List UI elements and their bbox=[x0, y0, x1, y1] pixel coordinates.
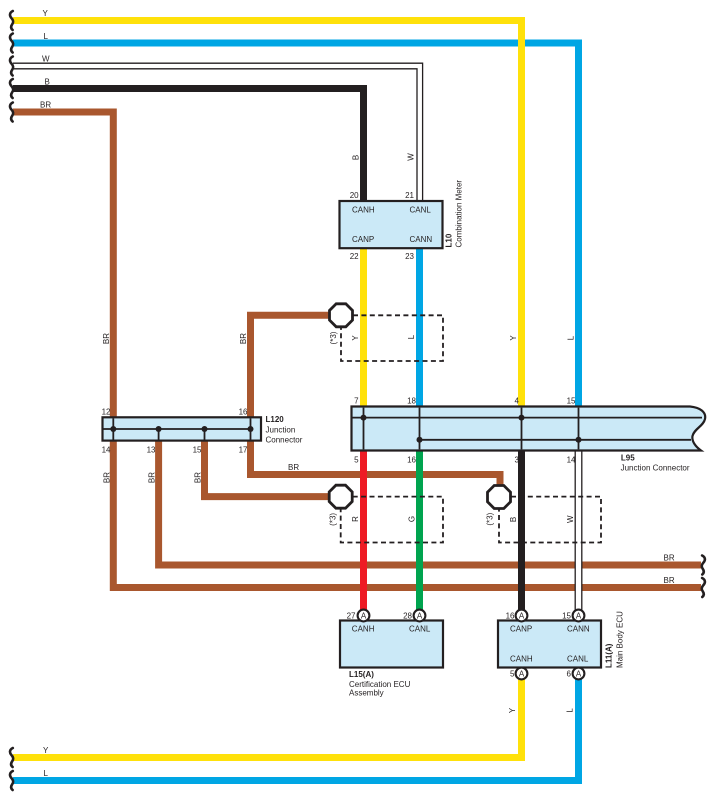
wire break (top L) bbox=[10, 34, 13, 53]
shield ground octagon S2 bbox=[329, 485, 352, 508]
wire W (L95 pin 14 to L11 pin 15) bbox=[575, 450, 582, 610]
wire break (bottom Y) bbox=[10, 748, 13, 767]
svg-text:Junction Connector: Junction Connector bbox=[621, 463, 690, 472]
wire L bottom (L11 pin 6 to left edge) bbox=[13, 680, 579, 781]
svg-text:Main Body ECU: Main Body ECU bbox=[616, 611, 625, 668]
wire Y top (left edge to L95 pin 4) bbox=[13, 21, 522, 408]
svg-text:BR: BR bbox=[148, 472, 157, 483]
L95 junction dots bbox=[361, 415, 367, 421]
svg-text:B: B bbox=[45, 77, 50, 86]
svg-text:Combination Meter: Combination Meter bbox=[455, 180, 464, 248]
connector L11(A) Main Body ECU box bbox=[498, 621, 601, 668]
L95 internal pin lines bbox=[364, 408, 579, 450]
svg-text:(*3): (*3) bbox=[329, 331, 338, 344]
wire BR2 (L120 pin 14 to right edge) bbox=[113, 441, 701, 588]
svg-text:14: 14 bbox=[102, 446, 111, 455]
svg-text:A: A bbox=[361, 611, 367, 620]
svg-text:L: L bbox=[566, 708, 575, 713]
svg-text:A: A bbox=[576, 611, 582, 620]
L120 internal pin lines bbox=[113, 418, 250, 439]
svg-text:L15(A): L15(A) bbox=[349, 670, 374, 679]
svg-text:16: 16 bbox=[407, 456, 416, 465]
svg-text:CANL: CANL bbox=[409, 625, 431, 634]
wire B (L95 pin 3 to L11 pin 16) bbox=[518, 450, 525, 610]
pin circle A (L11 pin 5) bbox=[516, 668, 528, 680]
svg-text:3: 3 bbox=[515, 456, 520, 465]
svg-text:L: L bbox=[44, 32, 49, 41]
wire break (right BR2) bbox=[702, 578, 705, 597]
svg-text:L11(A): L11(A) bbox=[605, 643, 614, 668]
svg-text:B: B bbox=[352, 155, 361, 160]
shield braid outline (R/G pair, dashed) bbox=[341, 497, 443, 543]
connector L120 Junction Connector box bbox=[103, 417, 262, 440]
svg-text:BR: BR bbox=[664, 554, 675, 563]
svg-text:14: 14 bbox=[567, 456, 576, 465]
svg-text:Y: Y bbox=[43, 746, 49, 755]
svg-text:BR: BR bbox=[239, 333, 248, 344]
svg-text:4: 4 bbox=[515, 397, 520, 406]
svg-text:CANP: CANP bbox=[352, 235, 374, 244]
wire break (right BR1) bbox=[702, 556, 705, 575]
svg-text:13: 13 bbox=[147, 446, 156, 455]
svg-text:L120: L120 bbox=[266, 415, 285, 424]
wire R (L95 pin 5 to L15 pin 27) bbox=[360, 450, 367, 610]
pin circle A (L11 pin 15) bbox=[573, 610, 585, 622]
wire G (L95 pin 16 to L15 pin 28) bbox=[416, 450, 423, 610]
svg-text:BR: BR bbox=[102, 333, 111, 344]
svg-text:R: R bbox=[351, 516, 360, 522]
svg-text:16: 16 bbox=[506, 612, 515, 621]
svg-text:Y: Y bbox=[43, 9, 49, 18]
svg-text:BR: BR bbox=[664, 576, 675, 585]
shield ground octagon S3 bbox=[488, 486, 511, 509]
svg-text:BR: BR bbox=[288, 463, 299, 472]
wire Y bottom (L11 pin 5 to left edge) bbox=[13, 680, 522, 758]
svg-text:15: 15 bbox=[193, 446, 202, 455]
svg-text:L: L bbox=[44, 769, 49, 778]
svg-text:CANL: CANL bbox=[410, 206, 432, 215]
shield ground octagon S1 bbox=[330, 304, 353, 327]
wire BR (L120 pin 15 to shield octagon S2) bbox=[205, 441, 333, 497]
wire break (bottom L) bbox=[10, 771, 13, 790]
svg-text:15: 15 bbox=[562, 612, 571, 621]
svg-text:18: 18 bbox=[407, 397, 416, 406]
svg-text:Y: Y bbox=[508, 707, 517, 713]
wire BR top (left edge to L120 pin 12) bbox=[13, 112, 113, 418]
svg-text:16: 16 bbox=[239, 408, 248, 417]
L95 internal bus line lower (CANL) bbox=[420, 439, 692, 441]
svg-text:17: 17 bbox=[239, 446, 248, 455]
svg-text:7: 7 bbox=[354, 397, 359, 406]
wire break (top W) bbox=[10, 57, 13, 76]
pin circle A (L11 pin 16) bbox=[516, 610, 528, 622]
svg-text:Y: Y bbox=[351, 335, 360, 341]
svg-text:CANP: CANP bbox=[510, 625, 532, 634]
wire L top (left edge to L95 pin 15) bbox=[13, 43, 579, 407]
L120 junction dots bbox=[110, 426, 116, 432]
svg-text:CANH: CANH bbox=[352, 206, 375, 215]
svg-text:BR: BR bbox=[40, 101, 51, 110]
svg-text:B: B bbox=[509, 517, 518, 522]
wire B top (left edge to L10 pin 20) bbox=[13, 89, 364, 203]
svg-text:(*3): (*3) bbox=[328, 513, 337, 526]
L120 internal bus line bbox=[104, 428, 251, 430]
svg-text:L95: L95 bbox=[621, 454, 635, 463]
svg-text:CANN: CANN bbox=[567, 625, 590, 634]
svg-text:5: 5 bbox=[354, 456, 359, 465]
svg-text:BR: BR bbox=[102, 472, 111, 483]
svg-text:15: 15 bbox=[567, 397, 576, 406]
connector L95 Junction Connector box (torn right edge) bbox=[352, 407, 706, 451]
wire Y (L10 pin 22 to L95 pin 7) bbox=[360, 248, 367, 407]
svg-text:28: 28 bbox=[403, 612, 412, 621]
svg-text:12: 12 bbox=[102, 408, 111, 417]
svg-text:L: L bbox=[567, 335, 576, 340]
svg-text:Y: Y bbox=[509, 335, 518, 341]
svg-text:A: A bbox=[519, 669, 525, 678]
svg-text:G: G bbox=[407, 516, 416, 522]
pin circle A (L11 pin 6) bbox=[573, 668, 585, 680]
svg-text:A: A bbox=[417, 611, 423, 620]
svg-text:W: W bbox=[42, 55, 50, 64]
svg-text:L: L bbox=[407, 334, 416, 339]
svg-text:5: 5 bbox=[510, 670, 515, 679]
wire BR (octagon S1 to L120 pin 16) bbox=[251, 315, 333, 417]
svg-text:22: 22 bbox=[350, 252, 359, 261]
L95 internal bus line upper (CANH) bbox=[352, 417, 702, 419]
svg-text:BR: BR bbox=[193, 472, 202, 483]
svg-text:CANH: CANH bbox=[352, 625, 375, 634]
svg-text:23: 23 bbox=[405, 252, 414, 261]
svg-text:21: 21 bbox=[405, 191, 414, 200]
svg-text:20: 20 bbox=[350, 191, 359, 200]
wire break (top Y) bbox=[10, 11, 13, 30]
svg-text:W: W bbox=[407, 153, 416, 161]
wire BR1 (L120 pin 13 to right edge) bbox=[159, 441, 701, 566]
pin circle A (L15 pin 27) bbox=[358, 610, 370, 622]
svg-text:CANL: CANL bbox=[567, 655, 589, 664]
wire break (top BR) bbox=[10, 103, 13, 122]
connector L15(A) Certification ECU box bbox=[340, 621, 443, 668]
svg-text:6: 6 bbox=[567, 670, 572, 679]
shield braid outline (B/W pair, dashed) bbox=[499, 497, 601, 543]
svg-text:A: A bbox=[576, 669, 582, 678]
svg-text:CANH: CANH bbox=[510, 655, 533, 664]
svg-text:W: W bbox=[566, 515, 575, 523]
pin circle A (L15 pin 28) bbox=[414, 610, 426, 622]
svg-text:CANN: CANN bbox=[410, 235, 433, 244]
svg-text:27: 27 bbox=[347, 612, 356, 621]
svg-text:Connector: Connector bbox=[266, 436, 303, 445]
svg-text:Assembly: Assembly bbox=[349, 689, 384, 698]
wire W top (left edge to L10 pin 21) bbox=[13, 63, 423, 202]
svg-text:(*3): (*3) bbox=[485, 512, 494, 525]
shield braid outline (Y/L pair, dashed) bbox=[341, 315, 443, 361]
wire L (L10 pin 23 to L95 pin 18) bbox=[416, 248, 423, 407]
svg-text:A: A bbox=[519, 611, 525, 620]
wire break (top B) bbox=[10, 79, 13, 98]
wire BR (L120 pin 17 to shield octagon S3) bbox=[251, 441, 501, 489]
svg-text:L10: L10 bbox=[444, 233, 453, 247]
connector L10 Combination Meter box bbox=[340, 201, 443, 248]
svg-text:Junction: Junction bbox=[266, 426, 296, 435]
